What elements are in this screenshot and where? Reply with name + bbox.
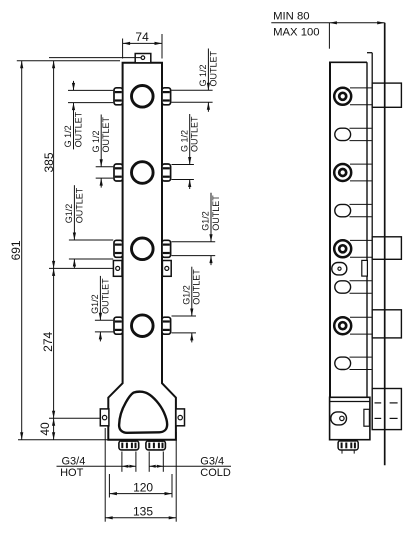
side port 4 tangent lines	[350, 317, 372, 334]
G1/2 outlet callout - port 3 left	[64, 185, 113, 268]
MIN/MAX extension line	[328, 23, 330, 49]
cold label leader	[163, 465, 231, 467]
svg-text:G3/4: G3/4	[62, 456, 86, 468]
port 2 right hex fitting	[162, 164, 171, 181]
side outlet 1 boss	[335, 128, 351, 140]
port 3 left hex fitting	[114, 240, 123, 257]
dimension label 385	[42, 152, 56, 172]
svg-text:135: 135	[133, 504, 153, 518]
svg-text:274: 274	[41, 331, 55, 351]
G1/2 outlet callout - port 4 right	[172, 267, 202, 343]
svg-text:OUTLET: OUTLET	[190, 116, 200, 152]
svg-text:OUTLET: OUTLET	[73, 111, 83, 147]
G 1/2 outlet callout - port 2 right	[172, 114, 200, 189]
dimension label 691	[9, 240, 23, 260]
port 2 opening	[132, 162, 154, 184]
svg-text:OUTLET: OUTLET	[100, 278, 110, 314]
G3/4 inlet thread extension lines	[122, 452, 163, 472]
side port 2 plug (bullseye)	[334, 164, 351, 181]
side view body slab	[329, 62, 367, 397]
dimension 74 line	[123, 42, 162, 45]
svg-text:G 1/2: G 1/2	[91, 130, 101, 152]
G 1/2 outlet callout - port 2 left	[91, 115, 113, 188]
side view base	[330, 397, 370, 439]
middle left ear hole	[116, 266, 120, 270]
port 4 right hex fitting	[162, 317, 171, 334]
svg-text:G 1/2: G 1/2	[198, 64, 208, 86]
label MIN 80	[273, 11, 309, 23]
dimension label 135	[133, 504, 153, 518]
middle right mounting ear	[162, 261, 171, 277]
side outlet 3 tangent lines	[350, 281, 372, 293]
G 1/2 outlet callout - port 1 right	[172, 49, 219, 112]
svg-text:OUTLET: OUTLET	[74, 187, 84, 223]
finished wall line	[384, 23, 386, 466]
svg-text:OUTLET: OUTLET	[211, 195, 221, 231]
svg-text:G1/2: G1/2	[64, 204, 74, 224]
side outlet 1 tangent lines	[350, 128, 372, 140]
side port 2 tangent lines	[350, 164, 372, 181]
dimension 120 extension lines	[109, 474, 172, 498]
svg-text:40: 40	[38, 422, 52, 436]
port 3 opening	[132, 238, 154, 260]
top mounting tab	[135, 54, 151, 63]
svg-text:OUTLET: OUTLET	[192, 269, 202, 305]
svg-text:G 1/2: G 1/2	[63, 125, 73, 147]
port 2 left hex fitting	[114, 164, 123, 181]
dimension 74 extension lines	[123, 34, 162, 59]
port 1 opening	[132, 86, 154, 108]
port 4 left hex fitting	[114, 317, 123, 334]
base bottom reference line	[18, 439, 108, 441]
side port 4 plug (bullseye)	[334, 317, 351, 334]
finish box lower (port 4)	[372, 310, 401, 338]
port 4 opening	[132, 315, 154, 337]
cold inlet hex nut	[146, 440, 166, 450]
middle right ear hole	[165, 266, 169, 270]
finish box bottom (base)	[372, 389, 401, 430]
hot inlet hex nut	[119, 440, 139, 450]
svg-text:G3/4: G3/4	[200, 456, 224, 468]
top tab screw hole	[141, 56, 145, 60]
port 1 right hex fitting	[162, 88, 171, 105]
dimension 385 line	[52, 61, 55, 269]
svg-text:COLD: COLD	[200, 467, 231, 479]
plaster mounting plate	[367, 53, 372, 389]
svg-text:HOT: HOT	[60, 467, 84, 479]
side outlet 3 boss	[335, 281, 351, 293]
svg-text:OUTLET: OUTLET	[208, 50, 218, 86]
svg-text:G1/2: G1/2	[201, 211, 211, 231]
G 1/2 outlet callout - port 1 left	[63, 81, 113, 149]
dimension 135 extension lines	[105, 428, 176, 522]
svg-text:691: 691	[9, 240, 23, 260]
side base ear hole	[340, 416, 344, 420]
label MAX 100	[273, 26, 319, 38]
side port 1 plug (bullseye)	[334, 88, 351, 105]
dimension 40 line	[52, 418, 55, 440]
side port 3 tangent lines	[350, 240, 372, 257]
svg-text:74: 74	[135, 30, 149, 44]
svg-text:385: 385	[42, 152, 56, 172]
leader to top tab hole	[49, 57, 141, 59]
label G3/4 HOT	[60, 456, 85, 480]
top reference line	[17, 60, 120, 62]
base right ear hole	[178, 415, 182, 419]
side outlet 4 boss	[335, 357, 351, 369]
dimension 120 line	[109, 492, 172, 495]
middle left mounting ear	[113, 261, 122, 277]
middle reference line (ear holes)	[49, 267, 113, 269]
svg-text:MAX 100: MAX 100	[273, 26, 319, 38]
dimension 691 line	[20, 61, 23, 440]
svg-text:G1/2: G1/2	[181, 285, 191, 305]
side middle ear bracket	[362, 260, 368, 276]
dimension label 40	[38, 422, 52, 436]
dimension 274 line	[52, 268, 55, 418]
dimension label 120	[133, 480, 153, 494]
G1/2 outlet callout - port 3 right	[172, 193, 221, 265]
side middle ear tab	[332, 263, 347, 275]
svg-text:G 1/2: G 1/2	[179, 130, 189, 152]
svg-text:120: 120	[133, 480, 153, 494]
side outlet 4 tangent lines	[350, 357, 372, 369]
side inlet hex nut	[338, 440, 358, 450]
MIN/MAX dimension line	[271, 21, 384, 24]
side outlet 2 boss	[335, 204, 351, 216]
hot inlet thread arrows	[122, 465, 136, 468]
thermostatic cartridge housing (rounded triangle)	[119, 392, 167, 433]
dimension label 74	[135, 30, 149, 44]
hot label leader	[57, 465, 122, 467]
svg-text:OUTLET: OUTLET	[101, 116, 111, 152]
side middle ear hole	[338, 267, 341, 270]
label G3/4 COLD	[200, 456, 231, 480]
dimension label 274	[41, 331, 55, 351]
finish box middle (port 3)	[372, 237, 401, 259]
valve body outline (front view)	[108, 63, 176, 440]
port 3 right hex fitting	[162, 240, 171, 257]
side inlet thread stubs	[342, 450, 354, 453]
bottom box adjustment dashes	[375, 403, 398, 419]
side port 1 tangent lines	[350, 88, 372, 105]
lower reference line (base ears)	[49, 417, 100, 419]
finish box upper (port 1)	[372, 83, 401, 107]
port 1 left hex fitting	[114, 88, 123, 105]
base left mounting ear	[100, 409, 109, 426]
side base bracket	[364, 409, 370, 426]
base right mounting ear	[176, 409, 185, 426]
dimension 135 line	[105, 516, 176, 519]
base left ear hole	[102, 415, 106, 419]
G1/2 outlet callout - port 4 left	[90, 276, 113, 342]
side base ear tab	[331, 412, 347, 425]
svg-text:G1/2: G1/2	[90, 294, 100, 314]
side outlet 2 tangent lines	[350, 204, 372, 216]
svg-text:MIN 80: MIN 80	[273, 11, 309, 23]
side port 3 plug (bullseye)	[334, 240, 351, 257]
cold inlet thread arrows	[149, 465, 163, 468]
